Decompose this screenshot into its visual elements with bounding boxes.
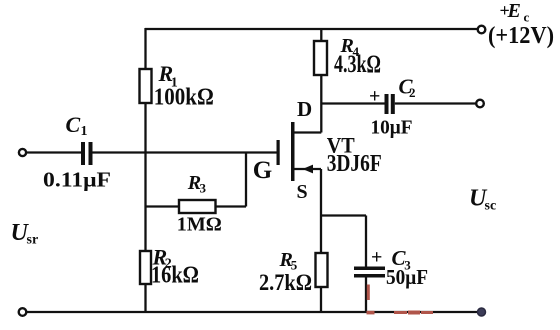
svg-text:G: G — [253, 157, 272, 184]
svg-text:3DJ6F: 3DJ6F — [327, 151, 382, 177]
svg-text:2: 2 — [409, 85, 416, 100]
svg-text:C: C — [66, 112, 81, 137]
svg-text:1MΩ: 1MΩ — [177, 214, 222, 236]
svg-text:sc: sc — [485, 199, 497, 214]
svg-text:10μF: 10μF — [371, 117, 413, 139]
svg-text:2.7kΩ: 2.7kΩ — [259, 270, 312, 295]
svg-text:4.3kΩ: 4.3kΩ — [334, 51, 381, 78]
svg-text:+: + — [371, 247, 382, 269]
svg-text:sr: sr — [27, 233, 39, 248]
svg-text:+: + — [369, 86, 380, 108]
svg-text:100kΩ: 100kΩ — [154, 85, 214, 111]
svg-text:16kΩ: 16kΩ — [151, 263, 199, 289]
svg-text:1: 1 — [81, 124, 88, 139]
svg-text:50μF: 50μF — [386, 265, 428, 289]
svg-text:(+12V): (+12V) — [488, 23, 554, 49]
svg-text:D: D — [297, 97, 312, 121]
svg-text:0.11μF: 0.11μF — [43, 168, 111, 192]
svg-text:S: S — [297, 181, 308, 203]
svg-text:3: 3 — [200, 181, 207, 196]
svg-text:E: E — [507, 0, 521, 22]
